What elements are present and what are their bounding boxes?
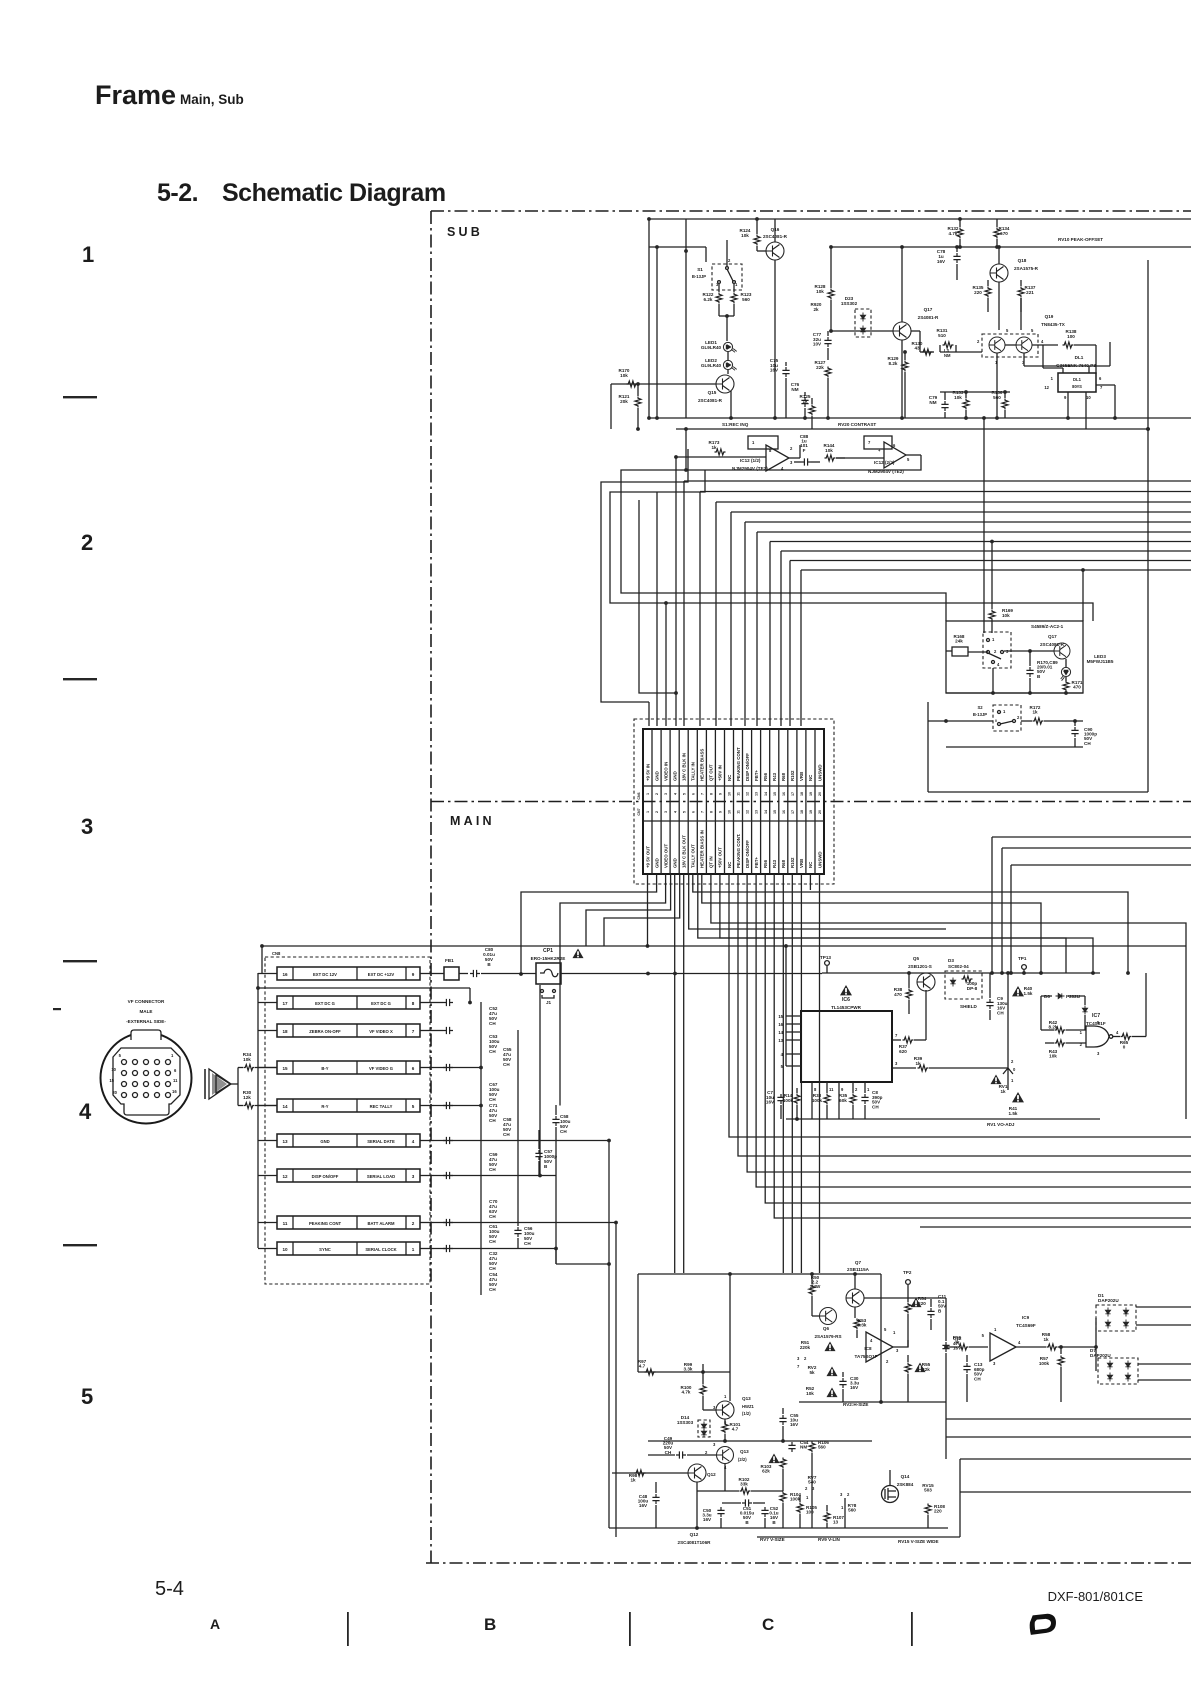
wire R97 rail: [638, 1371, 730, 1373]
resistor R168 box: [952, 647, 968, 656]
svg-text:10: 10: [282, 1247, 288, 1252]
svg-text:10k: 10k: [806, 1391, 814, 1396]
switch S1 box: [712, 264, 742, 290]
VF connector pin r2c2: [133, 1071, 138, 1076]
resistor R97: [645, 1369, 656, 1375]
svg-text:13: 13: [282, 1139, 288, 1144]
wire pin6 right y892: [693, 874, 1128, 973]
svg-text:15: 15: [282, 1066, 288, 1071]
wire row3 extension: [434, 1030, 443, 1032]
svg-text:NM: NM: [800, 1445, 807, 1450]
resistor R103 body: [780, 1458, 786, 1469]
svg-text:R102: R102: [790, 857, 795, 868]
svg-text:VRB: VRB: [799, 859, 804, 868]
transistor Q15: [716, 375, 734, 393]
resistor R124: [756, 219, 758, 234]
wire bottom rail cluster: [609, 1527, 948, 1529]
svg-text:FBT+: FBT+: [754, 856, 759, 868]
svg-text:18: 18: [282, 1029, 288, 1034]
svg-text:FBT+: FBT+: [754, 769, 759, 781]
capacitor C48: [655, 1482, 657, 1493]
svg-text:Q12: Q12: [690, 1532, 699, 1537]
svg-text:NM: NM: [944, 353, 951, 358]
svg-text:R56: R56: [763, 859, 768, 868]
svg-text:DXF-801/801CE: DXF-801/801CE: [1048, 1589, 1144, 1604]
resistor R102: [697, 1490, 739, 1492]
capacitor C67: [443, 1102, 453, 1109]
svg-text:RV10 PEAK-OFFSET: RV10 PEAK-OFFSET: [1058, 237, 1103, 242]
wire row1 to FB1 done above: [434, 1002, 443, 1004]
svg-text:FB1: FB1: [445, 958, 454, 963]
capacitor series C: [676, 1451, 686, 1458]
svg-text:B-13JP: B-13JP: [973, 712, 987, 717]
bus wire fan line 5: [745, 521, 1191, 523]
wire RV7 link: [811, 1453, 813, 1484]
svg-text:SYNC: SYNC: [319, 1247, 331, 1252]
wire SUB vertical x649b: [648, 219, 650, 418]
wire top-left of IC6 drops: [785, 946, 787, 1066]
resistor R133: [965, 392, 967, 398]
svg-text:Main, Sub: Main, Sub: [180, 92, 244, 107]
wire bottom right vertical x946: [945, 1402, 947, 1459]
svg-text:CH: CH: [503, 1132, 510, 1137]
capacitor C90: [1073, 719, 1077, 723]
wire CN8 row 15 right lead: [420, 1067, 434, 1069]
wire CN8 row 15 left lead: [258, 1067, 277, 1069]
svg-text:EXT DC G: EXT DC G: [315, 1001, 335, 1006]
wire x560 down: [559, 963, 561, 1106]
svg-text:Q17: Q17: [924, 307, 933, 312]
svg-text:SHIELD: SHIELD: [960, 1004, 978, 1009]
wire SUB vertical x657b: [656, 247, 658, 418]
svg-text:3: 3: [664, 793, 668, 795]
wire CN8 row 11 left lead: [258, 1222, 277, 1224]
bus wire fan line 2: [700, 491, 1191, 493]
wire Q6 connections: [812, 1315, 819, 1317]
resistor R34: [238, 1067, 243, 1069]
svg-text:VF VIDEO X: VF VIDEO X: [369, 1029, 393, 1034]
diode block D23: [855, 309, 871, 337]
svg-text:IC12 (1/2): IC12 (1/2): [740, 458, 761, 463]
svg-text:GL9LR40: GL9LR40: [701, 363, 722, 368]
warning triangle R40: [1012, 986, 1024, 996]
svg-text:10k: 10k: [825, 448, 833, 453]
svg-text:IC9: IC9: [1022, 1315, 1030, 1320]
svg-text:8: 8: [412, 1001, 415, 1006]
wire long vertical x609: [608, 1140, 610, 1528]
warning R54: [910, 1297, 921, 1307]
svg-text:12k: 12k: [243, 1095, 251, 1100]
svg-text:19: 19: [809, 810, 813, 814]
bus wire y1227: [920, 1226, 1191, 1228]
wire CN8 row 10 right lead: [420, 1248, 434, 1250]
capacitor C75: [785, 362, 787, 366]
wire S1 common up: [726, 240, 728, 266]
wire CN8 row 11 right lead: [420, 1222, 434, 1224]
wire pin5 down to cluster: [683, 874, 685, 1273]
bus wire fan line 10: [801, 569, 1191, 571]
svg-text:RV1 VO-ADJ: RV1 VO-ADJ: [987, 1122, 1015, 1127]
VF connector pin r2c5: [166, 1071, 171, 1076]
svg-text:11: 11: [737, 792, 741, 796]
svg-text:RV9 V-LIN: RV9 V-LIN: [818, 1537, 841, 1542]
wire CN8 row12 to mid: [434, 1175, 556, 1177]
VF connector pin r3c1: [122, 1082, 127, 1087]
wire Q16 collector from rail: [774, 219, 776, 242]
svg-text:M5FWJ11B5: M5FWJ11B5: [1087, 659, 1114, 664]
svg-text:+50V IN: +50V IN: [718, 765, 723, 781]
capacitor C56 vertical: [517, 1205, 519, 1226]
wire CN8 row13 to x609: [434, 1140, 609, 1142]
warning triangle IC6: [840, 985, 852, 995]
SUB/MAIN dash-dot divider: [431, 801, 1191, 803]
svg-text:3.3k: 3.3k: [684, 1367, 693, 1372]
wire CN8 row 18 right lead: [420, 1030, 434, 1032]
wire vertical x611 from base wire: [610, 384, 612, 429]
svg-text:11: 11: [737, 810, 741, 814]
LED LED3: [1061, 667, 1071, 680]
VF connector pin r1c4: [155, 1060, 160, 1065]
svg-text:UNSWD: UNSWD: [817, 851, 822, 868]
transistor Q12: [688, 1464, 706, 1482]
svg-text:10k: 10k: [741, 233, 749, 238]
op-amp IC12 2/2: [884, 442, 906, 468]
svg-text:HEATER BIASS IN: HEATER BIASS IN: [700, 830, 705, 868]
component CP1: [536, 963, 561, 984]
svg-text:20: 20: [818, 810, 822, 814]
resistor R65: [1113, 1036, 1120, 1038]
svg-text:12: 12: [282, 1174, 288, 1179]
IC IC6 body: [801, 1011, 892, 1082]
svg-text:3: 3: [81, 814, 93, 839]
wire pin14 down to bus5: [765, 874, 1191, 1203]
svg-text:10k: 10k: [1002, 613, 1010, 618]
transistor Q13 first: [716, 1401, 734, 1419]
svg-text:10k: 10k: [243, 1057, 251, 1062]
svg-text:RV15 V-SIZE WIDE: RV15 V-SIZE WIDE: [898, 1539, 939, 1544]
resistor R35 below IC6: [850, 1094, 856, 1105]
svg-text:17: 17: [282, 1001, 288, 1006]
capacitor C65: [443, 1064, 453, 1071]
svg-text:IC12 (2/2): IC12 (2/2): [874, 460, 895, 465]
wire CN8 row 16 right lead: [420, 973, 434, 975]
svg-text:100k: 100k: [1039, 1361, 1050, 1366]
svg-text:C: C: [762, 1615, 774, 1634]
svg-text:Q5: Q5: [913, 956, 920, 961]
wire top rail SUB: [649, 218, 1191, 220]
svg-text:620: 620: [899, 1049, 907, 1054]
svg-text:UNSWD: UNSWD: [817, 764, 822, 781]
capacitor C12: [945, 1336, 947, 1341]
resistor R53: [854, 1307, 856, 1318]
bus wire fan line 7: [770, 541, 1191, 543]
wire x1148 lower: [1147, 429, 1149, 792]
svg-text:560: 560: [848, 1508, 856, 1513]
svg-text:TALLY IN: TALLY IN: [691, 762, 696, 781]
svg-text:100k: 100k: [790, 1497, 801, 1502]
test point TP2: [906, 1280, 911, 1285]
svg-text:IC8: IC8: [864, 1346, 872, 1351]
svg-text:PEAKING CONT: PEAKING CONT: [309, 1221, 342, 1226]
wire pin3 down-left: [560, 874, 666, 963]
svg-text:15: 15: [773, 810, 777, 814]
svg-text:NC: NC: [727, 861, 732, 868]
svg-text:TP1: TP1: [1018, 956, 1027, 961]
resistor R33 below IC6: [824, 1094, 830, 1105]
VF connector pin r1c2: [133, 1060, 138, 1065]
resistor R130: [922, 349, 933, 355]
wire R121 tap: [637, 384, 639, 396]
svg-text:NC: NC: [808, 774, 813, 781]
svg-text:5k: 5k: [809, 1370, 815, 1375]
wire rail y247 right: [831, 246, 1191, 248]
svg-text:6: 6: [691, 811, 695, 813]
wire relay to Q17: [1004, 650, 1054, 652]
wire SUB horizontal y247 left: [649, 246, 706, 248]
wire fan drop x992: [991, 542, 993, 601]
wire below-conn right step4: [689, 874, 946, 929]
svg-text:VF VIDEO G: VF VIDEO G: [369, 1066, 393, 1071]
svg-text:MAIN: MAIN: [450, 814, 495, 828]
margin small dash: [53, 1008, 61, 1010]
resistor R171: [1063, 681, 1069, 692]
svg-text:Frame: Frame: [95, 80, 176, 110]
resistor R132: [959, 219, 961, 227]
svg-text:SERIAL DATE: SERIAL DATE: [367, 1139, 395, 1144]
connector CN8 row pin 12/3 DISP ON/OFF: [277, 1169, 420, 1182]
svg-text:J1: J1: [546, 1000, 552, 1005]
wire arrow to CN8: [231, 1083, 238, 1085]
gate IC7: [1086, 1026, 1109, 1047]
svg-text:CH: CH: [560, 1129, 567, 1134]
wire CN8 row 16 left lead: [258, 973, 277, 975]
resistor R125: [811, 398, 813, 404]
svg-text:TL1453CPWR: TL1453CPWR: [831, 1005, 862, 1010]
svg-text:670: 670: [1000, 231, 1008, 236]
svg-text:GND: GND: [320, 1139, 329, 1144]
wire Q19 right to R138: [1032, 344, 1058, 346]
svg-text:5: 5: [412, 1104, 415, 1109]
capacitor C30: [842, 1372, 844, 1377]
transistor Q6: [820, 1308, 837, 1325]
resistor R56: [945, 1298, 947, 1336]
svg-text:16V: 16V: [639, 1503, 648, 1508]
svg-text:11: 11: [173, 1078, 178, 1083]
svg-text:DL1: DL1: [1075, 355, 1084, 360]
resistor R129: [904, 352, 906, 360]
svg-text:(1/2): (1/2): [742, 1411, 751, 1416]
svg-text:TP13: TP13: [820, 955, 831, 960]
resistor R57: [1060, 1347, 1062, 1354]
svg-text:B-13JP: B-13JP: [692, 274, 706, 279]
svg-text:220: 220: [934, 1509, 942, 1514]
svg-text:2k: 2k: [813, 307, 819, 312]
svg-text:0: 0: [995, 719, 997, 723]
svg-text:1: 1: [646, 793, 650, 795]
capacitor C8 below IC6: [861, 1094, 868, 1104]
grid separator bar 2: [629, 1612, 631, 1646]
resistor R127: [825, 367, 831, 378]
svg-text:12: 12: [746, 792, 750, 796]
staircase wire D: [639, 500, 676, 693]
svg-text:VF CONNECTOR: VF CONNECTOR: [128, 999, 165, 1004]
svg-text:80#S: 80#S: [1072, 384, 1082, 389]
svg-text:560: 560: [742, 297, 750, 302]
svg-text:4: 4: [412, 1139, 415, 1144]
svg-text:CH: CH: [489, 1266, 496, 1271]
svg-text:CH: CH: [489, 1287, 496, 1292]
svg-text:DP-8: DP-8: [967, 986, 978, 991]
VF connector pin r2c4: [155, 1071, 160, 1076]
wire Q12 base: [612, 1472, 688, 1474]
LED LED1: [723, 342, 736, 352]
svg-text:QT IN: QT IN: [709, 856, 714, 868]
wire vertical x676: [675, 457, 677, 726]
wire cluster bottom: [946, 692, 1083, 694]
wire pin9 right y938: [720, 874, 1093, 973]
svg-text:CN8: CN8: [272, 951, 281, 956]
svg-text:1SS302: 1SS302: [841, 301, 858, 306]
svg-text:TC4S69F: TC4S69F: [1016, 1323, 1036, 1328]
VF connector pin r3c5: [166, 1082, 171, 1087]
wire Q13a base: [702, 1404, 704, 1410]
svg-text:470: 470: [1073, 685, 1081, 690]
wire IC12a input: [676, 456, 766, 458]
svg-text:33k: 33k: [740, 1482, 748, 1487]
svg-text:43: 43: [914, 346, 920, 351]
resistor R107: [826, 1505, 828, 1511]
svg-text:510: 510: [938, 333, 946, 338]
ferrite bead FB1: [444, 967, 459, 980]
svg-text:10k: 10k: [816, 289, 824, 294]
wire pin12 down to bus3: [747, 874, 1191, 1172]
svg-text:4.7: 4.7: [732, 1427, 739, 1432]
svg-text:CH: CH: [489, 1239, 496, 1244]
svg-text:1: 1: [646, 811, 650, 813]
svg-text:DISP ON/OFF: DISP ON/OFF: [745, 753, 750, 781]
svg-text:10V: 10V: [813, 342, 822, 347]
wire Q15 emitter down to rail: [730, 391, 732, 418]
wire CN8 left bus vertical: [257, 973, 259, 1248]
svg-text:4: 4: [79, 1099, 92, 1124]
svg-text:3k: 3k: [954, 1340, 960, 1345]
svg-text:6: 6: [412, 1066, 415, 1071]
warning R52: [826, 1387, 837, 1397]
grid separator bar 1: [347, 1612, 349, 1646]
diode D6b: [1082, 1006, 1087, 1015]
svg-text:22k: 22k: [922, 1367, 930, 1372]
wire CN8 row11 to x616: [434, 1222, 616, 1224]
svg-text:3: 3: [412, 1174, 415, 1179]
svg-text:R102: R102: [790, 770, 795, 781]
svg-text:16V: 16V: [703, 1517, 712, 1522]
svg-text:13: 13: [778, 1038, 783, 1043]
svg-text:DL1: DL1: [1073, 377, 1082, 382]
resistor R172: [1021, 720, 1032, 722]
wire LED2 to Q15: [727, 370, 729, 374]
resistor R104: [780, 1492, 786, 1503]
svg-text:HWZ1: HWZ1: [742, 1404, 755, 1409]
transistor Q14 FET: [882, 1486, 899, 1503]
wire IC6 top rail: [822, 972, 1100, 974]
bus wire fan line 4: [731, 511, 1191, 513]
arrow symbol: [204, 1069, 206, 1099]
wire IC8 output: [893, 1340, 908, 1347]
svg-text:R43: R43: [772, 859, 777, 868]
svg-text:10k: 10k: [1049, 1054, 1057, 1059]
svg-text:IC7: IC7: [1092, 1013, 1100, 1019]
wire x556 to bottom: [555, 1249, 557, 1265]
connector table row dividers: [643, 785, 824, 787]
wire CN8 row 13 right lead: [420, 1140, 434, 1142]
wire diode bus right2: [1136, 1324, 1191, 1326]
wire relay pin4 down: [992, 668, 994, 693]
svg-text:100: 100: [806, 1510, 814, 1515]
wire IC12b output: [906, 454, 921, 456]
svg-text:18V C BLK OUT: 18V C BLK OUT: [682, 835, 687, 868]
svg-text:9: 9: [412, 972, 415, 977]
capacitor C52: [443, 1245, 453, 1252]
svg-text:EXT DC 12V: EXT DC 12V: [313, 972, 337, 977]
wire caps rail x518: [517, 1030, 519, 1205]
wire Q17 base: [831, 330, 893, 332]
resistor R98: [635, 1470, 646, 1476]
capacitor C77: [827, 331, 829, 336]
svg-text:GND: GND: [654, 858, 659, 868]
wire vertical to pin1: [648, 702, 650, 726]
transistor Q7: [846, 1289, 864, 1307]
svg-text:1SS303: 1SS303: [677, 1420, 694, 1425]
relay cluster box: [946, 621, 1083, 693]
svg-text:1: 1: [412, 1247, 415, 1252]
svg-text:10: 10: [111, 1067, 116, 1072]
svg-text:16: 16: [172, 1089, 177, 1094]
capacitor C78: [956, 247, 958, 252]
wire right L-bus 2: [1002, 848, 1191, 973]
svg-text:2SA1579-RS: 2SA1579-RS: [814, 1334, 841, 1339]
svg-text:RV2:H-SIZE: RV2:H-SIZE: [843, 1402, 868, 1407]
svg-text:470: 470: [894, 992, 902, 997]
svg-text:CH: CH: [489, 1118, 496, 1123]
svg-text:4: 4: [673, 793, 677, 795]
wire pin13 down to bus4: [756, 874, 1191, 1187]
wire below-conn left step2: [586, 874, 671, 946]
staircase wire A: [601, 449, 688, 702]
connector CN8 row pin 10/1 SYNC: [277, 1242, 420, 1255]
svg-text:BATT ALARM: BATT ALARM: [368, 1221, 395, 1226]
svg-text:TC4S01F: TC4S01F: [1086, 1021, 1106, 1026]
VF connector pin r4c4: [155, 1093, 160, 1098]
svg-text:Q19: Q19: [1045, 314, 1054, 319]
svg-text:13: 13: [833, 1520, 839, 1525]
resistor R170: [627, 381, 638, 387]
svg-text:TN8435-TX: TN8435-TX: [1041, 322, 1066, 327]
svg-text:10k: 10k: [954, 395, 962, 400]
svg-text:TALLY OUT: TALLY OUT: [691, 844, 696, 868]
capacitor C88: [801, 458, 811, 465]
wire y1264 link: [556, 1263, 609, 1265]
SUB/MAIN dash-dot border left: [430, 211, 432, 1563]
svg-text:60k: 60k: [839, 1098, 847, 1103]
wire D6 loop: [1041, 996, 1052, 1030]
svg-text:Q18: Q18: [1018, 258, 1027, 263]
wire bottom right vertical x960: [959, 1459, 961, 1537]
wire IC6 bottom rail: [786, 1118, 1100, 1120]
svg-text:B-Y: B-Y: [321, 1066, 328, 1071]
connector CN6/CN7 table frame: [643, 729, 824, 874]
svg-text:D3: D3: [948, 958, 954, 963]
svg-text:14: 14: [778, 1030, 783, 1035]
